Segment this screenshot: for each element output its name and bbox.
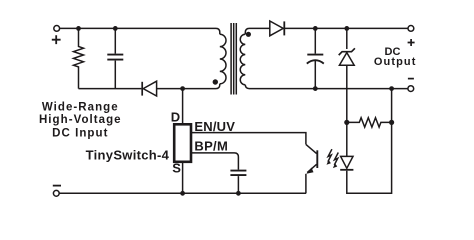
svg-text:DC Input: DC Input <box>52 128 108 140</box>
svg-text:High-Voltage: High-Voltage <box>39 114 122 126</box>
svg-text:TinySwitch-4: TinySwitch-4 <box>86 147 170 162</box>
svg-text:S: S <box>172 161 181 176</box>
svg-text:BP/M: BP/M <box>194 139 228 154</box>
svg-text:Wide-Range: Wide-Range <box>42 101 119 113</box>
svg-text:D: D <box>171 110 180 125</box>
svg-text:Output: Output <box>374 56 417 68</box>
svg-text:EN/UV: EN/UV <box>194 119 235 134</box>
